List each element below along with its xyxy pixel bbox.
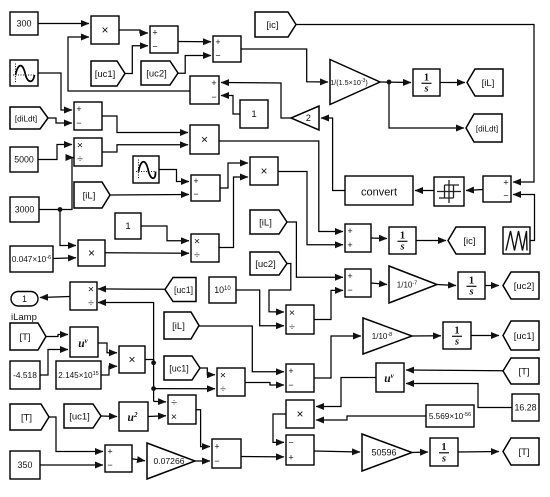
wire bbox=[287, 222, 343, 277]
svg-text:1: 1 bbox=[400, 230, 405, 241]
svg-text:[uc2]: [uc2] bbox=[514, 281, 535, 292]
relay bbox=[434, 177, 464, 206]
integrator 1/s iL bbox=[413, 69, 440, 96]
svg-text:×: × bbox=[220, 370, 226, 382]
wire bbox=[412, 335, 441, 337]
svg-text:+: + bbox=[76, 104, 81, 114]
svg-text:×: × bbox=[296, 407, 303, 421]
wire bbox=[219, 141, 343, 232]
svg-text:+: + bbox=[503, 178, 508, 188]
svg-text:+: + bbox=[347, 240, 352, 250]
tag [uc2] goto bbox=[503, 272, 539, 299]
svg-text:+: + bbox=[211, 78, 216, 88]
svg-text:−: − bbox=[288, 380, 293, 390]
wire bbox=[40, 350, 68, 376]
wire bbox=[196, 410, 210, 447]
wire bbox=[241, 49, 328, 82]
svg-text:2: 2 bbox=[306, 113, 311, 123]
power u^2 bbox=[119, 402, 148, 431]
junction bbox=[58, 207, 63, 212]
tag [ic] from bbox=[255, 12, 296, 37]
svg-text:s: s bbox=[399, 242, 404, 253]
wire bbox=[105, 252, 189, 255]
wire bbox=[513, 195, 535, 241]
wire bbox=[371, 237, 387, 240]
sum sum cap (right inputs) bbox=[483, 176, 511, 202]
svg-text:−: − bbox=[107, 460, 112, 470]
wire bbox=[101, 415, 117, 418]
wire bbox=[101, 366, 117, 375]
svg-text:×: × bbox=[88, 284, 94, 296]
svg-text:[diLdt]: [diLdt] bbox=[15, 114, 37, 123]
tag [T] from 2 bbox=[10, 404, 49, 430]
svg-text:×: × bbox=[171, 411, 177, 423]
svg-text:5000: 5000 bbox=[14, 155, 34, 165]
wire bbox=[53, 257, 76, 260]
wire bbox=[102, 116, 188, 133]
wire bbox=[200, 368, 215, 375]
svg-text:÷: ÷ bbox=[289, 321, 295, 333]
wire bbox=[380, 81, 411, 84]
svg-text:1: 1 bbox=[469, 275, 474, 286]
wire bbox=[415, 190, 434, 192]
tag [uc1] from (left tip) bbox=[165, 278, 196, 302]
wire bbox=[40, 464, 103, 466]
wire bbox=[102, 145, 188, 152]
tag [iL] from 3 bbox=[164, 312, 199, 339]
svg-text:50596: 50596 bbox=[371, 448, 396, 458]
svg-text:−: − bbox=[152, 42, 157, 52]
wire bbox=[141, 226, 189, 241]
wire bbox=[406, 369, 503, 372]
junction bbox=[151, 360, 156, 365]
wire bbox=[221, 96, 240, 115]
wire bbox=[221, 83, 291, 119]
svg-text:×: × bbox=[88, 246, 95, 260]
svg-text:[diLdt]: [diLdt] bbox=[476, 124, 498, 133]
junction bbox=[387, 80, 392, 85]
sum sum B bbox=[213, 36, 241, 62]
integrator 1/s uc2 bbox=[458, 272, 485, 299]
tag [uc2] from 2 bbox=[250, 252, 287, 275]
svg-text:−: − bbox=[214, 456, 219, 466]
wire bbox=[220, 163, 248, 188]
wire bbox=[154, 388, 215, 390]
wire bbox=[110, 194, 189, 197]
wire bbox=[154, 400, 166, 403]
constant 1 mid bbox=[115, 213, 141, 239]
triangle wave source bbox=[503, 227, 530, 254]
tag [iL] goto bbox=[467, 69, 503, 96]
wire bbox=[471, 335, 499, 337]
output display 1 iLamp bbox=[11, 292, 38, 307]
wire bbox=[145, 360, 154, 363]
svg-text:[iL]: [iL] bbox=[172, 321, 185, 332]
junction bbox=[151, 386, 156, 391]
svg-text:÷: ÷ bbox=[77, 153, 83, 165]
product x mult rad (right inputs) bbox=[286, 400, 314, 428]
wire bbox=[48, 118, 72, 123]
svg-text:300: 300 bbox=[16, 19, 31, 29]
wire bbox=[321, 118, 345, 191]
sum sum lamp1 bbox=[212, 439, 241, 468]
wire bbox=[125, 46, 148, 74]
tag [T] goto bbox=[503, 438, 539, 465]
svg-text:+: + bbox=[215, 37, 220, 47]
sine wave source sine1 bbox=[10, 60, 38, 86]
constant 16.28 bbox=[512, 394, 539, 421]
wire bbox=[458, 451, 499, 454]
svg-text:iLamp: iLamp bbox=[11, 312, 37, 323]
svg-text:+: + bbox=[193, 176, 198, 186]
power u^v right bbox=[376, 363, 404, 392]
svg-text:convert: convert bbox=[361, 187, 397, 199]
wire bbox=[98, 303, 154, 402]
wire bbox=[68, 37, 190, 91]
wire bbox=[273, 414, 286, 442]
tag [T] from 1 bbox=[10, 323, 46, 350]
wire bbox=[296, 25, 534, 183]
power u^v left bbox=[70, 327, 98, 357]
product x mult right bbox=[250, 157, 278, 185]
wire bbox=[119, 30, 148, 33]
svg-text:1: 1 bbox=[125, 221, 130, 232]
svg-text:+: + bbox=[347, 271, 352, 281]
integrator 1/s uc1 bbox=[443, 322, 471, 349]
svg-text:[uc1]: [uc1] bbox=[169, 363, 189, 373]
wire bbox=[148, 415, 166, 418]
constant 1 top bbox=[240, 100, 268, 128]
svg-text:[uc2]: [uc2] bbox=[146, 68, 167, 79]
svg-text:[iL]: [iL] bbox=[83, 190, 96, 201]
tag [uc1] from bottom bbox=[64, 404, 101, 428]
svg-text:÷: ÷ bbox=[220, 383, 226, 395]
svg-text:1: 1 bbox=[454, 325, 459, 336]
constant 2.145e15 bbox=[56, 361, 101, 389]
wire bbox=[412, 451, 428, 454]
wire bbox=[245, 383, 284, 386]
wire bbox=[38, 73, 72, 110]
tag [uc1] from mid bbox=[164, 356, 200, 380]
sum sum uc1 bbox=[286, 364, 314, 392]
wire bbox=[440, 82, 465, 84]
gain gain 2 bbox=[291, 106, 319, 130]
svg-text:×: × bbox=[260, 164, 267, 178]
svg-text:1: 1 bbox=[251, 109, 256, 120]
convert block bbox=[345, 176, 413, 205]
svg-text:×: × bbox=[101, 23, 108, 37]
product x/div uc2sq bbox=[286, 305, 314, 334]
svg-text:[T]: [T] bbox=[518, 447, 529, 458]
wire bbox=[236, 290, 284, 326]
wire bbox=[49, 417, 103, 452]
svg-text:0.047×10-6: 0.047×10-6 bbox=[12, 255, 51, 264]
tag [T] from right bbox=[503, 358, 539, 384]
tag [iL] from 2 bbox=[250, 210, 287, 234]
svg-text:÷: ÷ bbox=[194, 249, 200, 261]
svg-text:−: − bbox=[215, 51, 220, 61]
constant 5.569e-56 bbox=[426, 405, 474, 427]
svg-text:1: 1 bbox=[441, 442, 446, 453]
svg-text:[T]: [T] bbox=[19, 332, 30, 343]
wire bbox=[241, 456, 284, 458]
wire bbox=[416, 240, 446, 242]
tag [uc1] goto bbox=[503, 321, 539, 350]
wire bbox=[46, 335, 68, 337]
svg-text:×: × bbox=[201, 132, 208, 146]
sine wave source sine2 bbox=[133, 156, 159, 183]
svg-text:+: + bbox=[214, 442, 219, 452]
tag [diLdt] goto bbox=[466, 114, 502, 142]
wire bbox=[38, 23, 89, 25]
svg-text:[T]: [T] bbox=[21, 412, 32, 423]
svg-text:1: 1 bbox=[424, 72, 429, 83]
svg-text:[ic]: [ic] bbox=[463, 236, 475, 247]
sum sum C (right inputs) bbox=[190, 76, 219, 104]
wire bbox=[466, 190, 483, 191]
svg-text:16.28: 16.28 bbox=[514, 403, 536, 413]
tag [diLdt] from bbox=[10, 107, 48, 129]
svg-text:[T]: [T] bbox=[518, 366, 529, 377]
gain 1/(1.5e-3) bbox=[330, 60, 380, 105]
product x/div lamp (right inputs) bbox=[70, 282, 97, 310]
svg-text:−: − bbox=[211, 92, 216, 102]
gain 1/10^-7 bbox=[389, 266, 437, 303]
wire bbox=[132, 459, 145, 461]
constant 5000 bbox=[10, 147, 38, 172]
gain 50596 bbox=[362, 434, 412, 471]
constant 350 bbox=[10, 451, 40, 479]
svg-text:3000: 3000 bbox=[15, 205, 35, 215]
wire bbox=[159, 170, 189, 182]
svg-text:0.07266: 0.07266 bbox=[153, 456, 184, 466]
svg-text:−: − bbox=[503, 191, 508, 201]
wire bbox=[406, 384, 512, 408]
sum sum 350 bbox=[105, 445, 132, 472]
tag [uc1] from top bbox=[91, 61, 125, 86]
wire bbox=[316, 378, 376, 407]
svg-text:−: − bbox=[288, 438, 293, 448]
sum sum A bbox=[150, 26, 178, 53]
wire bbox=[39, 209, 60, 211]
wire bbox=[269, 264, 291, 313]
wire bbox=[389, 82, 464, 128]
wire bbox=[314, 451, 360, 452]
wire bbox=[60, 210, 76, 246]
svg-text:s: s bbox=[454, 337, 459, 348]
svg-text:+: + bbox=[288, 366, 293, 376]
svg-text:+: + bbox=[347, 226, 352, 236]
svg-text:[uc1]: [uc1] bbox=[69, 411, 90, 422]
svg-text:s: s bbox=[441, 454, 446, 465]
wire bbox=[314, 336, 361, 378]
integrator 1/s ic bbox=[389, 227, 416, 254]
product div/x lamp bbox=[168, 395, 196, 424]
constant 300 bbox=[10, 12, 38, 35]
product x mult uv bbox=[119, 346, 145, 373]
svg-text:×: × bbox=[128, 352, 135, 366]
wire bbox=[219, 177, 248, 248]
wire bbox=[40, 297, 70, 298]
svg-text:s: s bbox=[423, 84, 428, 95]
svg-text:÷: ÷ bbox=[171, 397, 177, 409]
svg-text:1: 1 bbox=[22, 294, 27, 304]
svg-text:×: × bbox=[77, 140, 83, 152]
wire bbox=[98, 343, 117, 353]
gain 0.07266 bbox=[147, 443, 195, 479]
sum sum sine2 bbox=[191, 175, 220, 201]
wire bbox=[98, 288, 165, 290]
svg-text:+: + bbox=[107, 447, 112, 457]
svg-text:[ic]: [ic] bbox=[266, 20, 278, 31]
wire bbox=[178, 56, 211, 74]
constant -4.518 bbox=[10, 361, 40, 389]
wire bbox=[437, 285, 456, 286]
svg-text:+: + bbox=[288, 453, 293, 463]
svg-text:[uc1]: [uc1] bbox=[514, 331, 535, 342]
wire bbox=[314, 290, 343, 319]
wire bbox=[371, 283, 387, 285]
svg-text:+: + bbox=[152, 28, 157, 38]
svg-text:−: − bbox=[347, 285, 352, 295]
sum sum ++ bbox=[345, 224, 371, 252]
tag [uc2] from top bbox=[141, 61, 178, 85]
sum sum rad bbox=[286, 435, 314, 465]
wire bbox=[278, 172, 343, 245]
product x/div mid2 bbox=[191, 234, 219, 262]
svg-text:[iL]: [iL] bbox=[259, 217, 272, 228]
svg-text:÷: ÷ bbox=[88, 297, 94, 309]
product x/div uc1 bbox=[217, 368, 245, 396]
wire bbox=[60, 158, 74, 210]
sum sum uc2 bbox=[345, 269, 371, 297]
svg-text:s: s bbox=[468, 287, 473, 298]
wire bbox=[195, 460, 210, 462]
product x mult 047 bbox=[78, 240, 105, 266]
tag [ic] goto bbox=[448, 227, 485, 254]
constant 10^10 bbox=[209, 277, 236, 303]
wire bbox=[316, 416, 426, 420]
svg-text:[iL]: [iL] bbox=[482, 78, 495, 89]
wire bbox=[199, 326, 284, 372]
product x mult mid bbox=[190, 125, 219, 154]
svg-text:[uc1]: [uc1] bbox=[95, 69, 116, 80]
svg-text:[uc1]: [uc1] bbox=[174, 285, 193, 295]
wire bbox=[485, 285, 499, 287]
svg-text:×: × bbox=[194, 236, 200, 248]
product x mult300 bbox=[91, 16, 119, 44]
svg-text:-4.518: -4.518 bbox=[13, 370, 37, 380]
svg-text:[uc2]: [uc2] bbox=[255, 259, 276, 270]
svg-text:−: − bbox=[76, 118, 81, 128]
wire bbox=[178, 41, 211, 43]
sum sum diLdt bbox=[74, 102, 102, 130]
svg-text:−: − bbox=[193, 189, 198, 199]
wire bbox=[38, 145, 72, 160]
svg-text:350: 350 bbox=[18, 460, 33, 470]
constant 3000 bbox=[10, 197, 39, 222]
integrator 1/s T bbox=[430, 438, 458, 466]
product x/div 5000 bbox=[74, 138, 102, 166]
svg-text:×: × bbox=[289, 307, 295, 319]
tag [iL] from mid-left bbox=[74, 182, 110, 208]
constant 0.047e-6 bbox=[10, 246, 53, 272]
gain 1/10^-8 bbox=[363, 318, 412, 354]
